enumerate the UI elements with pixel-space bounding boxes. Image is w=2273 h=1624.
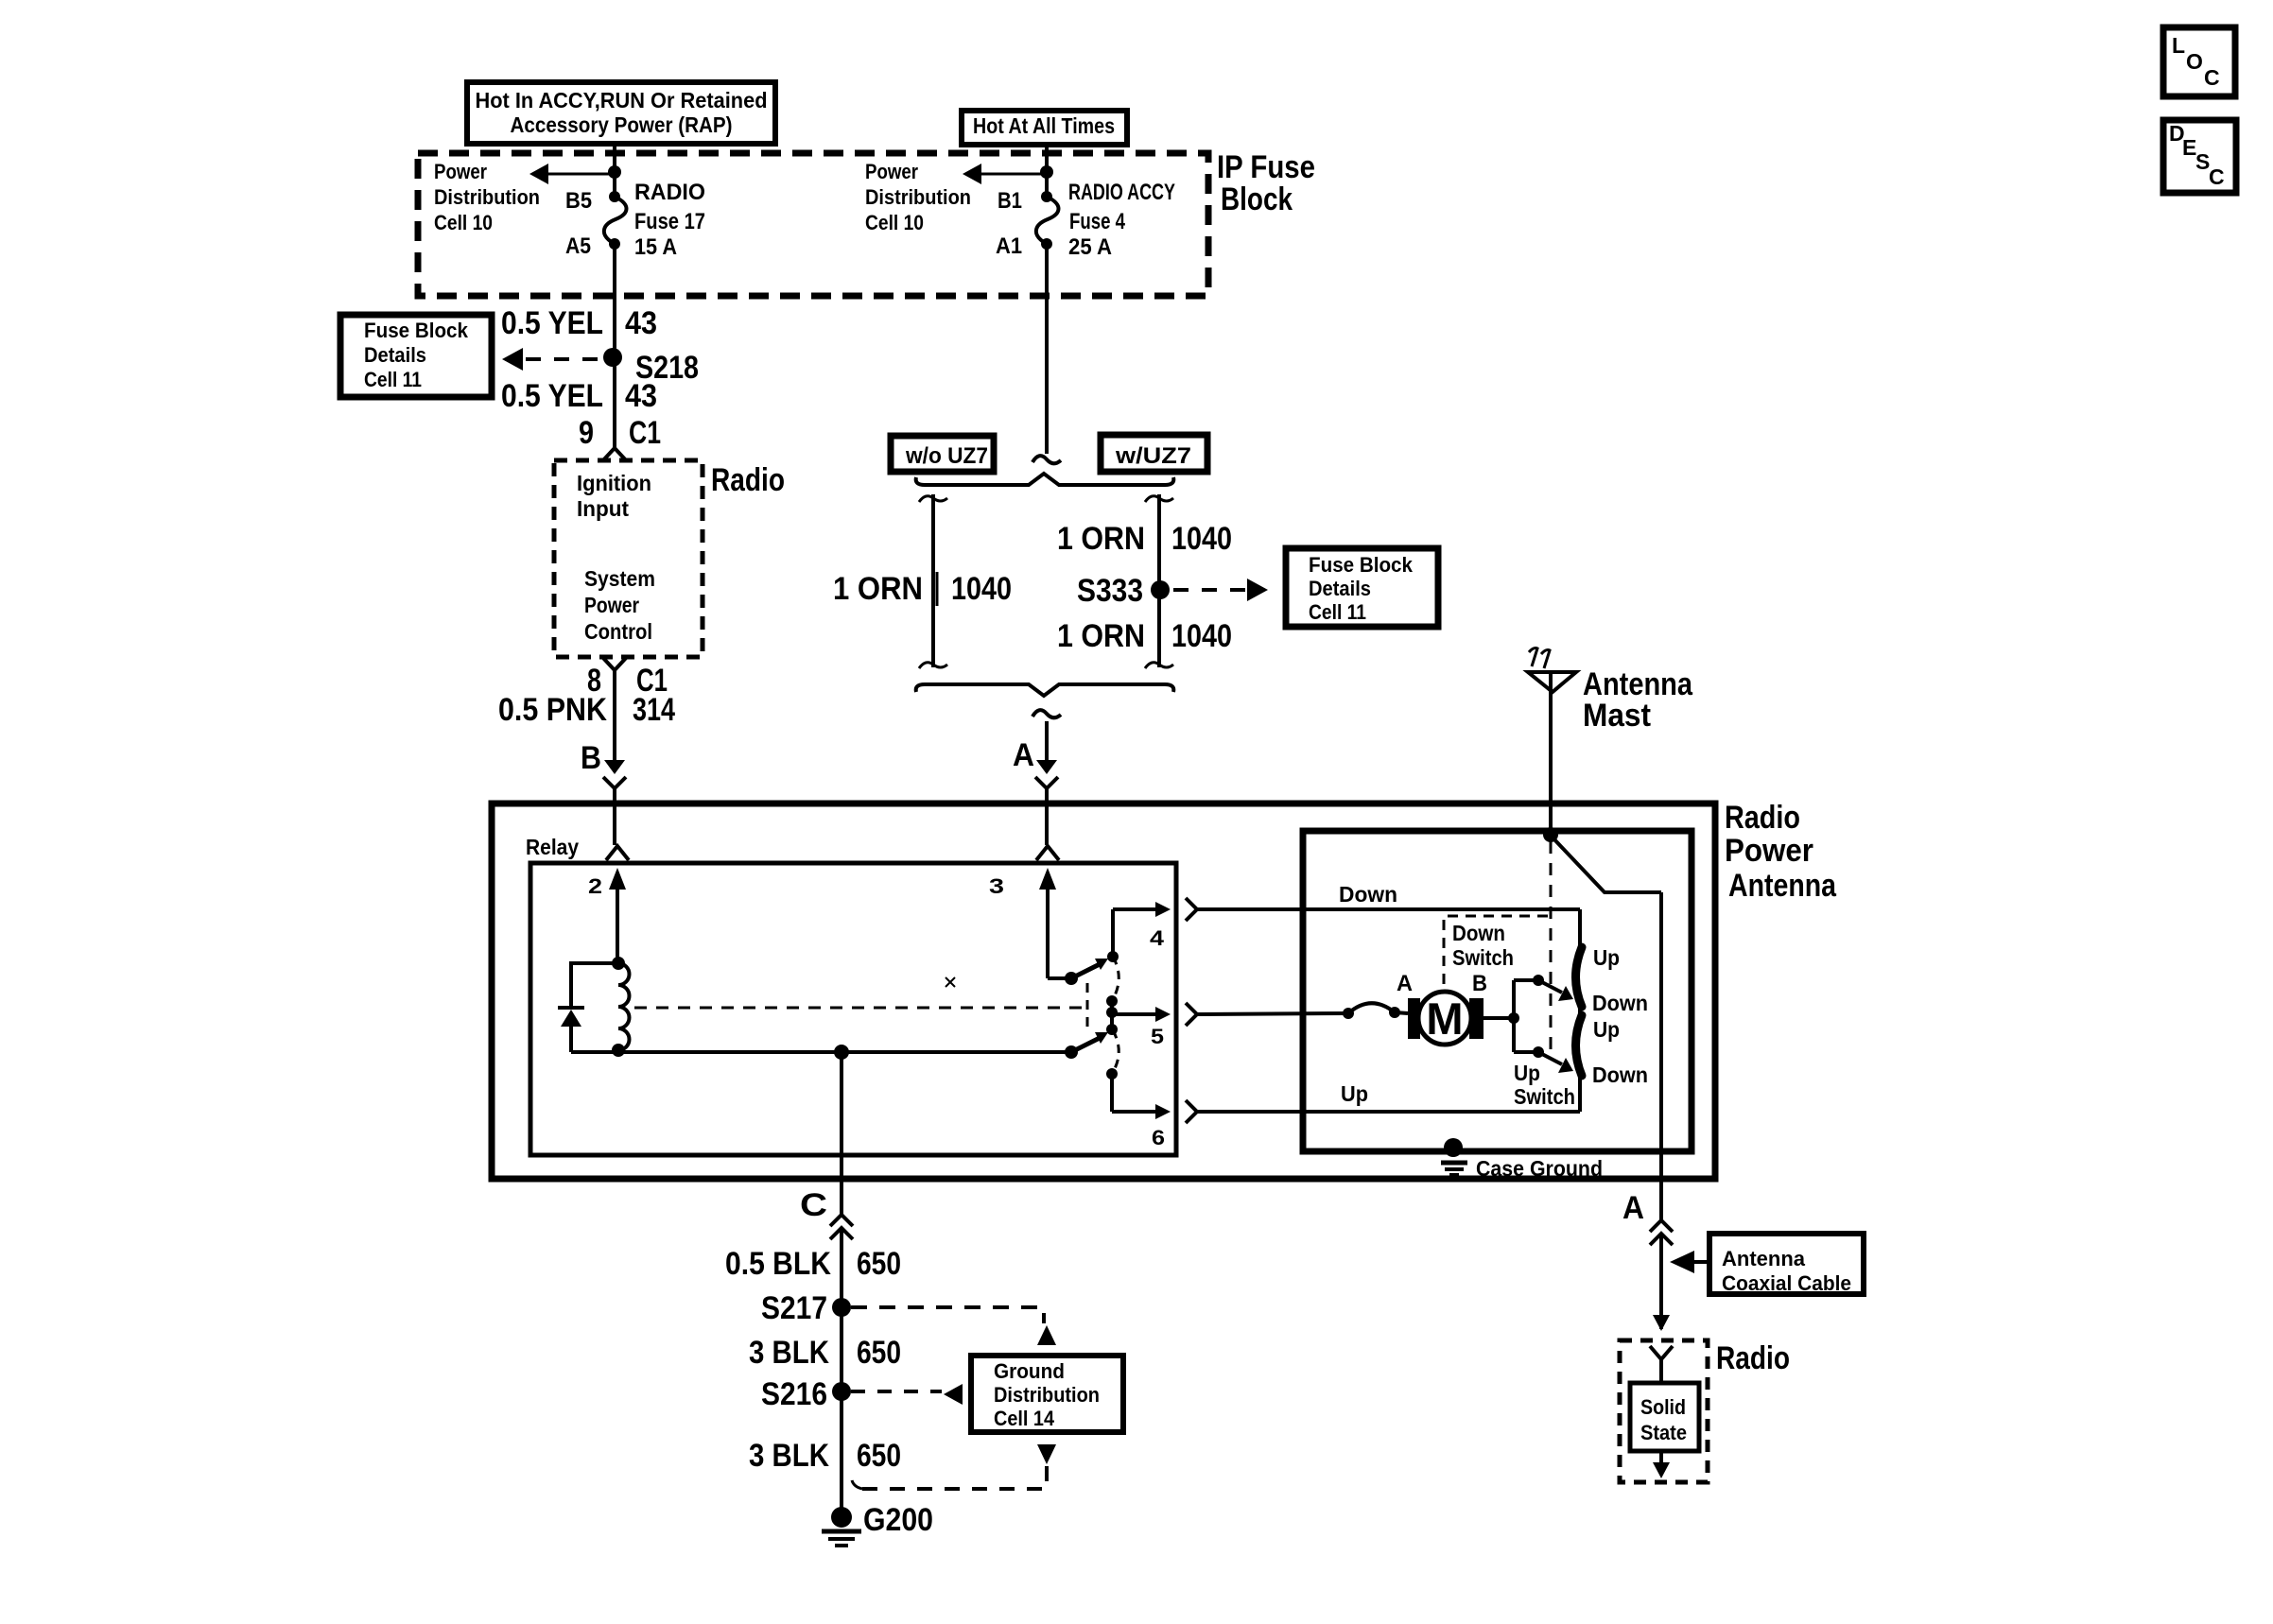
- wire label 0.5 YEL 43 (lower): [501, 378, 657, 414]
- svg-text:IP Fuse: IP Fuse: [1217, 149, 1315, 185]
- svg-text:1040: 1040: [1171, 521, 1232, 557]
- svg-text:Fuse Block: Fuse Block: [1309, 553, 1414, 577]
- bottom option brace: [916, 684, 1174, 696]
- svg-text:Switch: Switch: [1452, 945, 1514, 970]
- label IP Fuse Block: [1217, 149, 1315, 217]
- mast drive rod to coax: [1553, 838, 1661, 892]
- svg-text:Switch: Switch: [1514, 1084, 1575, 1109]
- svg-text:Distribution: Distribution: [994, 1383, 1100, 1407]
- svg-text:B: B: [1472, 971, 1487, 996]
- svg-text:0.5 BLK: 0.5 BLK: [725, 1246, 831, 1282]
- wire coil top to diode: [571, 963, 618, 1008]
- svg-text:Coaxial Cable: Coaxial Cable: [1722, 1271, 1851, 1295]
- wire: YEL down from fuse block: [613, 304, 616, 447]
- svg-text:650: 650: [857, 1335, 901, 1371]
- svg-text:System: System: [584, 566, 655, 591]
- label RADIO Fuse 17 15 A: [634, 180, 705, 260]
- svg-text:A1: A1: [996, 233, 1022, 259]
- svg-text:Cell 14: Cell 14: [994, 1407, 1055, 1430]
- svg-text:Radio: Radio: [1716, 1340, 1790, 1376]
- svg-text:3 BLK: 3 BLK: [749, 1438, 829, 1474]
- arrow to Power Distribution (left): [529, 164, 615, 184]
- svg-text:Block: Block: [1221, 181, 1293, 217]
- header box: Hot At All Times: [962, 111, 1127, 145]
- box Fuse Block Details Cell 11 (left): [340, 315, 492, 397]
- svg-text:Power: Power: [1725, 833, 1813, 869]
- dashed contact arc upper: [1112, 957, 1119, 1001]
- svg-text:B: B: [581, 740, 601, 776]
- label System Power Control: [584, 566, 655, 644]
- fuse F17 symbol: [604, 191, 627, 250]
- svg-text:1 ORN: 1 ORN: [833, 571, 923, 607]
- svg-text:Radio: Radio: [711, 462, 785, 498]
- svg-text:Ground: Ground: [994, 1359, 1065, 1383]
- svg-text:Distribution: Distribution: [865, 185, 971, 209]
- svg-text:Cell 10: Cell 10: [434, 211, 493, 234]
- female connectors at relay outputs: [1186, 898, 1197, 921]
- svg-text:Power: Power: [434, 160, 487, 183]
- svg-text:1040: 1040: [1171, 618, 1232, 654]
- stray x mark: [946, 977, 955, 987]
- svg-text:Hot In ACCY,RUN Or Retained: Hot In ACCY,RUN Or Retained: [476, 88, 768, 112]
- coax wire down from mast: [1659, 892, 1663, 1221]
- relay box: [530, 863, 1176, 1155]
- svg-text:Cell 10: Cell 10: [865, 211, 924, 234]
- label Antenna Mast: [1583, 666, 1693, 734]
- wire: fuse 4 down long run to UZ7 split: [1045, 244, 1049, 454]
- svg-text:C: C: [2209, 164, 2225, 189]
- node dot at left fuse feed: [608, 165, 621, 179]
- svg-text:w/o UZ7: w/o UZ7: [905, 443, 988, 469]
- svg-text:Down: Down: [1592, 991, 1648, 1015]
- relay coil: [612, 957, 630, 1057]
- splice S216: [761, 1376, 851, 1412]
- svg-text:B1: B1: [998, 188, 1022, 214]
- case ground: [1441, 1138, 1603, 1181]
- svg-text:G200: G200: [863, 1502, 933, 1538]
- svg-text:Details: Details: [364, 343, 426, 367]
- svg-text:43: 43: [625, 378, 657, 414]
- svg-text:Antenna: Antenna: [1728, 868, 1837, 904]
- relay terminal 4 contact and wire: [1107, 902, 1171, 962]
- svg-text:6: 6: [1152, 1126, 1165, 1149]
- up switch arm: [1533, 1046, 1573, 1073]
- wire label 0.5 PNK 314: [498, 692, 675, 728]
- upper contact strip arc: [1576, 947, 1583, 1007]
- top option brace: [916, 474, 1174, 485]
- ground G200: [822, 1502, 933, 1546]
- header box: Hot In ACCY,RUN Or Retained Accessory Power (RAP): [467, 82, 775, 144]
- pin 8 C1: [587, 663, 668, 699]
- wire terminal C down from relay: [840, 1052, 843, 1215]
- svg-text:RADIO ACCY: RADIO ACCY: [1068, 180, 1175, 205]
- splice S333: [1077, 573, 1170, 609]
- wire coil bottom to switch pivot: [571, 1050, 1071, 1054]
- svg-text:Power: Power: [865, 160, 918, 183]
- svg-text:Input: Input: [577, 496, 629, 521]
- down switch arm: [1533, 975, 1573, 1001]
- wire label 0.5 YEL 43 (upper): [501, 305, 657, 341]
- wire label 0.5 BLK 650: [725, 1246, 901, 1282]
- lower contact strip arc: [1576, 1015, 1583, 1076]
- connector out of radio (female chevron): [602, 657, 627, 670]
- svg-text:Relay: Relay: [526, 835, 579, 859]
- node dot at right fuse feed: [1040, 165, 1053, 179]
- wire out of solid state with arrow: [1653, 1451, 1670, 1478]
- svg-text:State: State: [1640, 1421, 1687, 1444]
- svg-text:w/UZ7: w/UZ7: [1115, 443, 1191, 469]
- male connector C: [830, 1215, 853, 1517]
- male connector A into antenna box: [1035, 760, 1058, 845]
- antenna assembly box: [1303, 831, 1692, 1151]
- svg-text:0.5 PNK: 0.5 PNK: [498, 692, 607, 728]
- contact labels Up Down Up Down: [1592, 945, 1648, 1087]
- svg-text:2: 2: [588, 874, 602, 898]
- dashed contact arc lower: [1112, 1030, 1119, 1074]
- svg-text:Down: Down: [1592, 1063, 1648, 1087]
- dashed mechanical link from mast: [1550, 841, 1553, 1054]
- svg-text:M: M: [1426, 993, 1463, 1044]
- arrow to Power Distribution (right): [963, 164, 1047, 184]
- svg-text:Up: Up: [1593, 1017, 1620, 1042]
- dashed reference S218 to Fuse Block Details: [502, 348, 602, 371]
- svg-text:1 ORN: 1 ORN: [1057, 521, 1145, 557]
- box Fuse Block Details Cell 11 (right): [1286, 548, 1438, 627]
- relay terminal 6 contact and wire: [1106, 1068, 1171, 1149]
- svg-text:Fuse 17: Fuse 17: [634, 209, 705, 234]
- label RADIO ACCY Fuse 4 25 A: [1068, 180, 1175, 260]
- svg-text:Hot At All Times: Hot At All Times: [973, 113, 1115, 138]
- svg-text:S216: S216: [761, 1376, 827, 1412]
- svg-text:L: L: [2172, 33, 2185, 58]
- DESC box: [2163, 120, 2236, 193]
- svg-text:Distribution: Distribution: [434, 185, 540, 209]
- box Antenna Coaxial Cable: [1709, 1234, 1864, 1295]
- svg-text:Up: Up: [1514, 1061, 1540, 1085]
- radio dashed box: [554, 460, 703, 657]
- svg-text:C: C: [2204, 65, 2220, 90]
- fuse F4 symbol: [1036, 191, 1059, 250]
- svg-text:Radio: Radio: [1725, 800, 1800, 836]
- LOC box: [2163, 27, 2235, 96]
- male connector B into antenna box: [603, 760, 626, 845]
- junction dot to terminal C: [834, 1045, 849, 1060]
- Up wire from relay terminal 6: [1197, 1110, 1580, 1114]
- svg-text:3: 3: [989, 874, 1004, 898]
- wire: feed from Hot At All Times into fuse 4: [1045, 147, 1049, 197]
- svg-text:O: O: [2186, 49, 2203, 74]
- svg-text:650: 650: [857, 1438, 901, 1474]
- motor feed wire from relay terminal 5: [1197, 1013, 1348, 1014]
- svg-text:0.5 YEL: 0.5 YEL: [501, 305, 603, 341]
- female connector above relay pin 3: [1036, 846, 1059, 860]
- Radio Power Antenna outer box: [492, 803, 1715, 1179]
- svg-text:Mast: Mast: [1583, 698, 1651, 734]
- wire label 1 ORN 1040 (w/o UZ7): [833, 571, 1012, 607]
- w/o UZ7 branch wire with option hooks: [919, 494, 947, 668]
- relay pin 2 wire with up arrow: [588, 868, 626, 963]
- svg-text:Down: Down: [1339, 882, 1397, 907]
- svg-text:15 A: 15 A: [634, 234, 677, 260]
- label Down Switch: [1452, 921, 1514, 970]
- svg-text:Down: Down: [1452, 921, 1505, 945]
- svg-text:3 BLK: 3 BLK: [749, 1335, 829, 1371]
- arrowhead into radio: [1653, 1315, 1670, 1331]
- pin 9 C1: [579, 415, 661, 451]
- dashed reference S333 to Fuse Block Details: [1173, 579, 1268, 601]
- relay lower switch arm: [1065, 1032, 1108, 1059]
- label Ignition Input: [577, 471, 651, 521]
- svg-text:5: 5: [1151, 1025, 1164, 1048]
- svg-text:650: 650: [857, 1246, 901, 1282]
- connector into radio (female chevron): [602, 448, 627, 461]
- w/UZ7 branch wire with option hooks: [1145, 494, 1173, 668]
- svg-text:Up: Up: [1593, 945, 1620, 970]
- radio dashed box (bottom): [1620, 1340, 1708, 1482]
- svg-text:1 ORN: 1 ORN: [1057, 618, 1145, 654]
- relay upper switch arm: [1065, 959, 1108, 985]
- svg-text:Case Ground: Case Ground: [1476, 1156, 1603, 1181]
- connector below braces: [1032, 710, 1061, 717]
- svg-text:Fuse 4: Fuse 4: [1069, 209, 1126, 234]
- svg-text:A: A: [1013, 737, 1034, 773]
- dashed reference S217 to ground distribution: [851, 1307, 1056, 1345]
- svg-text:Up: Up: [1341, 1081, 1368, 1106]
- wire: fuse 17 down to dashed box bottom: [613, 244, 616, 304]
- svg-text:B5: B5: [565, 188, 592, 214]
- svg-text:RADIO: RADIO: [634, 180, 705, 205]
- Down wire from relay terminal 4: [1197, 907, 1580, 911]
- svg-text:A: A: [1622, 1190, 1644, 1226]
- svg-text:43: 43: [625, 305, 657, 341]
- antenna mast signal marks: [1529, 648, 1537, 667]
- wire motor B to switch feeds: [1484, 980, 1538, 1052]
- svg-text:Fuse Block: Fuse Block: [364, 319, 469, 342]
- label Power Distribution Cell 10 (left): [434, 160, 540, 234]
- svg-text:A: A: [1397, 971, 1413, 996]
- dashed actuation link from coil: [634, 983, 1087, 1027]
- svg-text:Solid: Solid: [1640, 1395, 1686, 1419]
- svg-text:Power: Power: [584, 593, 639, 617]
- wire label 3 BLK 650 (upper): [749, 1335, 901, 1371]
- circuit breaker: [1343, 1003, 1408, 1019]
- down switch dashed outline: [1444, 916, 1551, 984]
- wire label 1 ORN 1040 (w/UZ7 upper): [1057, 521, 1232, 557]
- box w/UZ7: [1101, 435, 1207, 472]
- svg-text:C1: C1: [629, 415, 661, 451]
- female connector inside radio: [1650, 1346, 1673, 1383]
- svg-text:Antenna: Antenna: [1722, 1247, 1806, 1270]
- svg-text:4: 4: [1150, 926, 1165, 950]
- antenna mast symbol: [1528, 672, 1576, 835]
- svg-text:S217: S217: [761, 1290, 827, 1326]
- wire: feed from RAP into fuse 17: [613, 147, 616, 197]
- svg-text:Details: Details: [1309, 577, 1371, 600]
- diode CR1: [558, 1008, 584, 1052]
- male connector A coax: [1650, 1220, 1673, 1329]
- connector on ORN feed (in-line): [1032, 456, 1061, 463]
- node: mast junction on assembly box: [1543, 827, 1558, 842]
- splice S218: [603, 348, 699, 386]
- dashed reference ground distribution to G200: [852, 1444, 1056, 1489]
- box w/o UZ7: [891, 436, 994, 472]
- wire label 1 ORN 1040 (w/UZ7 lower): [1057, 618, 1232, 654]
- wire: down to antenna box: [1045, 721, 1049, 762]
- IP fuse block dashed box: [418, 153, 1208, 296]
- relay terminal 5 contacts and wire: [1106, 995, 1171, 1048]
- svg-text:314: 314: [633, 692, 675, 728]
- female connector above relay pin 2: [606, 846, 629, 860]
- svg-text:Cell 11: Cell 11: [1309, 600, 1366, 624]
- wire: radio to relay (PNK): [613, 670, 616, 762]
- label Up Switch: [1514, 1061, 1575, 1109]
- contact rail right side: [1578, 909, 1582, 1112]
- svg-text:A5: A5: [565, 233, 591, 259]
- svg-text:C: C: [800, 1187, 827, 1223]
- svg-text:S333: S333: [1077, 573, 1143, 609]
- svg-text:0.5 YEL: 0.5 YEL: [501, 378, 603, 414]
- box Solid State: [1630, 1383, 1699, 1451]
- motor M: [1397, 971, 1487, 1045]
- svg-text:1040: 1040: [951, 571, 1012, 607]
- svg-text:Control: Control: [584, 619, 652, 644]
- dashed reference S216 to ground distribution: [851, 1384, 963, 1405]
- svg-text:Accessory Power (RAP): Accessory Power (RAP): [511, 112, 733, 137]
- svg-text:Cell 11: Cell 11: [364, 368, 422, 391]
- splice S217: [761, 1290, 851, 1326]
- label Power Distribution Cell 10 (right): [865, 160, 971, 234]
- box Ground Distribution Cell 14: [971, 1356, 1123, 1432]
- wire label 3 BLK 650 (lower): [749, 1438, 901, 1474]
- svg-text:25 A: 25 A: [1068, 234, 1112, 260]
- arrow from coax cable box to wire: [1670, 1251, 1709, 1273]
- svg-text:Ignition: Ignition: [577, 471, 651, 495]
- svg-text:9: 9: [579, 415, 594, 451]
- relay pin 3 wire with up arrow: [989, 868, 1071, 978]
- label Radio Power Antenna: [1725, 800, 1837, 904]
